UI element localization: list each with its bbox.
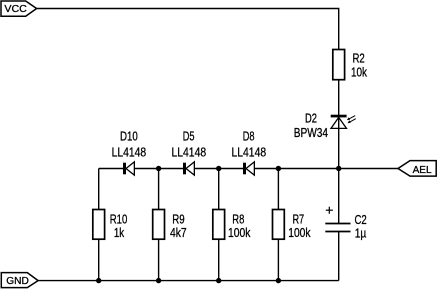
net flag VCC xyxy=(1,1,37,16)
wire VCC to R2 top xyxy=(37,9,339,50)
svg-text:R7: R7 xyxy=(292,213,304,227)
junction dot gnd/R10 xyxy=(96,278,101,283)
svg-text:C2: C2 xyxy=(354,213,366,227)
wire bus to R9 top xyxy=(158,169,160,210)
wire bus to R7 top xyxy=(277,169,279,210)
svg-text:R8: R8 xyxy=(232,213,244,227)
svg-text:R9: R9 xyxy=(172,213,184,227)
capacitor C2 xyxy=(325,169,366,281)
svg-text:LL4148: LL4148 xyxy=(172,145,207,159)
wire R8 bottom to GND rail xyxy=(218,239,220,280)
svg-text:R10: R10 xyxy=(110,213,128,227)
junction dot gnd/R8 xyxy=(216,278,221,283)
junction dot bus/R9 xyxy=(156,166,161,171)
light arrows into D2 xyxy=(347,116,356,124)
svg-text:D10: D10 xyxy=(120,130,138,144)
diode D5 xyxy=(172,130,207,175)
junction dot gnd/R9 xyxy=(156,278,161,283)
svg-text:100k: 100k xyxy=(228,226,251,240)
resistor R7 xyxy=(273,210,312,240)
svg-text:10k: 10k xyxy=(351,66,368,80)
svg-text:R2: R2 xyxy=(352,51,364,65)
wire R9 bottom to GND rail xyxy=(158,239,160,280)
diode D8 xyxy=(232,130,267,175)
svg-text:BPW34: BPW34 xyxy=(294,126,328,140)
net flag AEL xyxy=(398,161,436,177)
resistor R2 xyxy=(333,50,368,80)
junction dot bus/R7 xyxy=(276,166,281,171)
wire bus left corner down to R10 xyxy=(98,169,100,210)
svg-text:1µ: 1µ xyxy=(355,226,367,240)
junction dot bus/D2/C2 xyxy=(336,166,341,171)
svg-text:LL4148: LL4148 xyxy=(112,145,147,159)
photodiode D2 xyxy=(294,112,347,140)
junction dot gnd/R7 xyxy=(276,278,281,283)
svg-text:100k: 100k xyxy=(288,226,311,240)
wire bus to R8 top xyxy=(218,169,220,210)
bottom GND rail wire xyxy=(38,280,339,282)
junction dot bus/R8 xyxy=(216,166,221,171)
net flag GND xyxy=(1,273,38,288)
resistor R10 xyxy=(93,210,128,240)
horizontal bus wire (node AEL) xyxy=(99,168,399,170)
resistor R9 xyxy=(153,210,187,240)
wire R7 bottom to GND rail xyxy=(277,239,279,280)
wire R10 bottom to GND rail xyxy=(98,239,100,280)
resistor R8 xyxy=(213,210,251,240)
svg-text:AEL: AEL xyxy=(413,165,432,176)
svg-text:GND: GND xyxy=(6,276,29,287)
svg-text:VCC: VCC xyxy=(4,4,27,15)
svg-text:D8: D8 xyxy=(243,130,255,144)
svg-text:D2: D2 xyxy=(305,112,317,126)
svg-text:4k7: 4k7 xyxy=(170,226,187,240)
svg-text:D5: D5 xyxy=(183,130,195,144)
diode D10 xyxy=(112,130,147,175)
svg-text:1k: 1k xyxy=(114,226,125,240)
wire R2 to node AEL junction xyxy=(338,80,340,169)
svg-text:LL4148: LL4148 xyxy=(232,145,267,159)
